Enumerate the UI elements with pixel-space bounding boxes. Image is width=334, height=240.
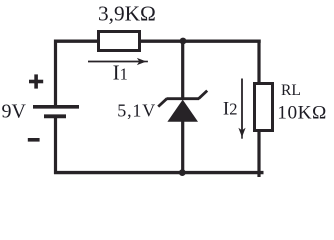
svg-text:I1: I1: [113, 61, 128, 85]
svg-text:RL: RL: [281, 82, 301, 99]
svg-text:10KΩ: 10KΩ: [277, 103, 327, 124]
svg-text:9V: 9V: [2, 100, 27, 122]
svg-text:5,1V: 5,1V: [117, 100, 156, 120]
svg-text:3,9KΩ: 3,9KΩ: [98, 1, 156, 25]
svg-text:I2: I2: [223, 99, 238, 120]
